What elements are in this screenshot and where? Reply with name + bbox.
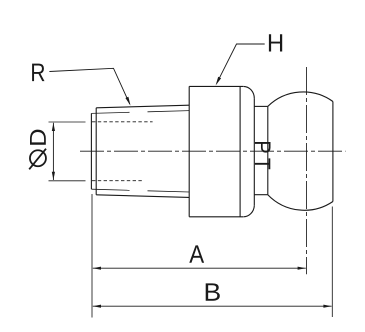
ball bottom outline bbox=[268, 195, 333, 211]
thread top crest line segment 1 bbox=[91, 112, 129, 113]
label OD: letter D (rotated) bbox=[30, 130, 46, 145]
thread end face (chamfer dia) bbox=[90, 113, 92, 189]
label R text bbox=[32, 64, 44, 82]
label OD: diameter symbol slash bbox=[29, 149, 46, 170]
ball top outline bbox=[268, 92, 333, 106]
label PT: letter T (rotated) bbox=[255, 158, 270, 169]
thread bottom crest line segment 1 bbox=[91, 189, 129, 190]
thread top root dashed line bbox=[92, 121, 153, 123]
label R leader bbox=[49, 68, 129, 104]
dim OD top extension line bbox=[49, 121, 86, 123]
label H leader bbox=[217, 44, 265, 83]
label R leader arrowhead bbox=[125, 97, 130, 106]
dim A text bbox=[189, 245, 204, 262]
thread bottom outline bbox=[96, 195, 189, 198]
thread bottom root dashed line bbox=[92, 180, 142, 182]
hex corner arc top-right bbox=[243, 86, 254, 98]
thread top crest line segment 2 bbox=[148, 111, 190, 112]
hex corner arc bottom-right bbox=[243, 206, 254, 217]
ball left edge bbox=[267, 106, 269, 194]
hex bottom edge bbox=[189, 216, 243, 218]
hex right edge bbox=[253, 98, 255, 205]
vertical centerline (ball axis) bbox=[306, 67, 308, 274]
thread end face (full dia) bbox=[95, 108, 97, 195]
dim A left extension line bbox=[91, 194, 93, 318]
label H leader arrowhead bbox=[216, 77, 222, 86]
dim A dimension line bbox=[93, 267, 306, 269]
thread top outline bbox=[96, 105, 189, 108]
hex flat inner vertical line bbox=[239, 86, 241, 216]
dim B text bbox=[206, 283, 220, 300]
label PT: letter P (rotated) bbox=[255, 142, 271, 153]
dim B dimension line bbox=[93, 305, 332, 307]
label OD: diameter symbol circle bbox=[30, 150, 46, 166]
thread bottom crest line segment 2 bbox=[148, 191, 190, 192]
horizontal centerline bbox=[80, 150, 346, 152]
label H text bbox=[269, 34, 282, 51]
dim OD dimension line with arrows bbox=[52, 123, 54, 180]
dim OD bottom extension line bbox=[49, 180, 86, 182]
neck bottom edge bbox=[254, 194, 267, 196]
hex left edge bbox=[188, 86, 190, 216]
hex top edge bbox=[189, 85, 243, 87]
ball right edge bbox=[332, 102, 334, 202]
neck top edge bbox=[254, 105, 267, 107]
dim B right extension line bbox=[331, 207, 333, 318]
